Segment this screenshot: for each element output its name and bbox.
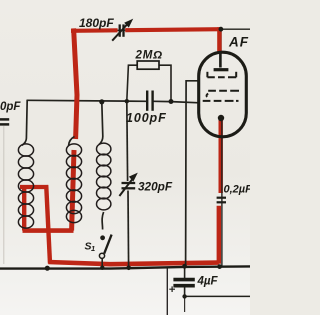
svg-text:180pF: 180pF <box>79 16 114 30</box>
junction dot node at 2M right lead <box>169 99 174 104</box>
wire tube top-cap lead <box>219 29 222 67</box>
wire grid node horizontal line (left part) <box>27 100 146 101</box>
tube V1 grid row 2 (dashed) <box>207 91 239 97</box>
junction dot supply line <box>182 294 186 298</box>
red signal path: vertical through coil L1 <box>22 187 26 231</box>
wire antenna lead faint (left edge) <box>3 126 5 264</box>
red signal path: right drop to tube top cap <box>217 27 221 51</box>
red signal path: upper horizontal link in coils <box>20 185 48 189</box>
capacitor C1 180pF arrow <box>112 24 127 41</box>
tube V1 cathode row 3 (dashed) <box>203 100 239 102</box>
wire below-rail vertical at x167 <box>166 268 168 315</box>
wire 320pF upper lead <box>126 101 129 181</box>
wire supply line bottom right <box>185 295 250 297</box>
coil L1 <box>18 144 33 228</box>
red signal path: up right side above 0.2uF to tube plate dot <box>218 119 222 193</box>
wire tube grid lead and vertical to rail <box>186 81 200 266</box>
capacitor C4 0.2uF: plates <box>217 198 226 203</box>
coil L2 <box>66 144 81 223</box>
polarity plus of C5 <box>169 286 175 292</box>
junction dot rail at 320pF line <box>126 266 131 271</box>
red signal path: left vertical down through coil L2 (upper) <box>74 28 77 139</box>
red signal path: top horizontal left part <box>71 28 118 33</box>
tube V1 top cap electrode bar <box>214 68 229 71</box>
svg-text:2MΩ: 2MΩ <box>135 50 163 62</box>
junction dot rail at switch stub <box>100 266 104 270</box>
svg-text:AF: AF <box>228 35 249 50</box>
tube V1 grid row 1 (dashed with end hooks) <box>207 72 236 78</box>
wire left corner down to coil L1 <box>22 100 27 146</box>
red signal path: bottom horizontal link in coils <box>23 228 74 233</box>
switch S1: open contact circle <box>99 253 104 258</box>
switch S1: fixed contact dot <box>100 235 105 240</box>
svg-text:0,2µF: 0,2µF <box>224 184 251 196</box>
svg-text:1: 1 <box>91 244 95 253</box>
junction dot rail at plate bypass <box>217 264 222 269</box>
capacitor C3 320pF variable: plates <box>119 173 137 196</box>
capacitor C5 4uF electrolytic: plates <box>169 280 195 292</box>
background paper <box>0 0 250 315</box>
tube V1 envelope <box>199 52 247 137</box>
red signal path: through coil L2 (lower) <box>72 150 74 231</box>
wire below supply junction <box>184 296 186 312</box>
wire grid node horizontal line (right of 100pF to tube) <box>153 101 199 103</box>
svg-text:0pF: 0pF <box>0 101 21 113</box>
resistor R1 2M ohm: box <box>137 61 159 69</box>
svg-text:320pF: 320pF <box>138 180 173 194</box>
wire top line (black under red, from 180pF to tube top) <box>74 29 220 31</box>
red signal path: up right side below 0.2uF <box>217 206 221 264</box>
wire 2M resistor left lead <box>127 65 137 101</box>
capacitor C3 320pF arrow <box>119 179 132 196</box>
wire coil L3 top lead <box>99 102 103 145</box>
junction dot node at coil L3 lead <box>99 99 104 104</box>
red signal path: vertical down to ground rail <box>46 185 50 264</box>
wire 2M resistor right lead <box>159 65 171 101</box>
red signal path: along bottom rail <box>48 262 218 264</box>
wire coil L2 top hook <box>69 137 75 146</box>
wire 320pF lower lead to rail <box>127 191 130 268</box>
capacitor C6 antenna (left edge, partial): plates <box>0 119 9 124</box>
wire AF output line (top right) <box>221 28 250 30</box>
wire right vertical under red (plate to rail) <box>221 119 223 267</box>
coil L3 <box>97 143 111 210</box>
junction dot rail at 4uF <box>182 264 187 269</box>
ground rail (bottom bus) <box>0 266 250 268</box>
wire coil L3 bottom lead to switch <box>102 212 103 230</box>
capacitor C1 180pF variable: plates <box>112 19 133 41</box>
svg-text:100pF: 100pF <box>126 111 167 125</box>
tube V1 plate connection dot <box>218 115 224 121</box>
svg-text:4µF: 4µF <box>197 276 219 288</box>
capacitor C2 100pF: plates <box>147 91 152 111</box>
red signal path: top horizontal right part <box>125 29 221 30</box>
wire 4uF top lead <box>184 266 186 278</box>
junction dot AF takeoff <box>219 27 224 32</box>
junction dot rail at red drop <box>45 266 50 271</box>
wire 4uF bottom lead <box>184 287 186 296</box>
switch S1: lever <box>104 235 111 254</box>
wire switch S1 bottom stub <box>101 259 103 268</box>
junction dot node at 2M left lead <box>125 99 129 103</box>
